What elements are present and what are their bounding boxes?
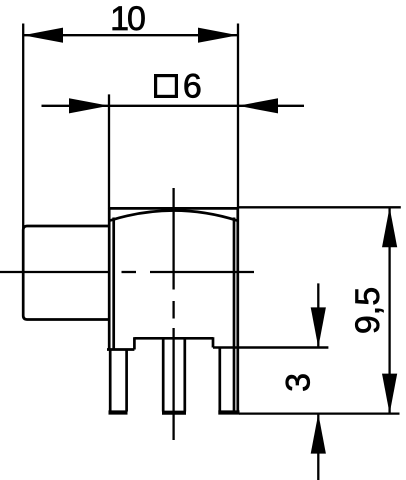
body right inner wall line <box>233 218 236 413</box>
left step <box>133 337 136 349</box>
dimension square-6: left arrowhead (pointing right) <box>69 98 109 113</box>
body curved top (arc) <box>110 211 237 221</box>
vertical pin centerline <box>172 188 174 290</box>
dimension 10: right extension line <box>237 24 239 209</box>
svg-text:6: 6 <box>183 67 202 105</box>
dimension square-6: right arrowhead (pointing left) <box>238 98 278 113</box>
svg-text:3: 3 <box>280 373 318 392</box>
center pin bottom bar <box>162 411 186 415</box>
body left outer edge <box>108 208 111 349</box>
dimension 3: lower arrowhead (pointing up) <box>311 414 326 454</box>
left post top ledge <box>107 348 134 351</box>
right post top / dimension 3 upper extension line <box>213 346 328 348</box>
dimension 3: lower tail line <box>317 414 319 480</box>
body left inner wall line <box>112 218 115 350</box>
dimension 10: left arrowhead <box>23 28 63 43</box>
left post right edge <box>125 350 128 412</box>
right post bottom bar <box>218 410 239 414</box>
dimension square-6: dimension line <box>42 105 305 107</box>
dimension 9,5: dimension line <box>388 207 390 413</box>
dimension 9,5: bottom arrowhead <box>382 374 397 414</box>
body right outer edge <box>236 208 239 412</box>
right post left edge <box>218 348 221 412</box>
center pin left edge <box>162 338 165 411</box>
left post left edge <box>109 350 112 412</box>
dimension 3: upper arrowhead (pointing down) <box>311 307 326 347</box>
body bottom edge <box>134 337 213 340</box>
dimension 9,5: top extension line <box>238 206 401 208</box>
center pin right edge <box>183 338 186 411</box>
dimension 9,5: top arrowhead <box>382 207 397 247</box>
dimension square-6: square symbol <box>156 76 177 97</box>
dimension 9,5 and 3: bottom extension line <box>239 412 400 414</box>
svg-text:10: 10 <box>110 0 145 38</box>
right step <box>212 337 215 347</box>
dimension 10: dimension line <box>23 34 238 36</box>
dimension 10: right arrowhead <box>198 28 238 43</box>
dimension 3: upper tail line <box>317 283 319 347</box>
dimension 10: left extension line <box>22 24 24 229</box>
svg-text:9,5: 9,5 <box>349 287 387 334</box>
horizontal centerline <box>0 271 110 273</box>
left post bottom bar <box>109 410 128 414</box>
body top cap line <box>109 207 238 210</box>
dimension square-6: left extension line <box>108 94 110 208</box>
barrel (coax interface) outline <box>23 226 109 320</box>
